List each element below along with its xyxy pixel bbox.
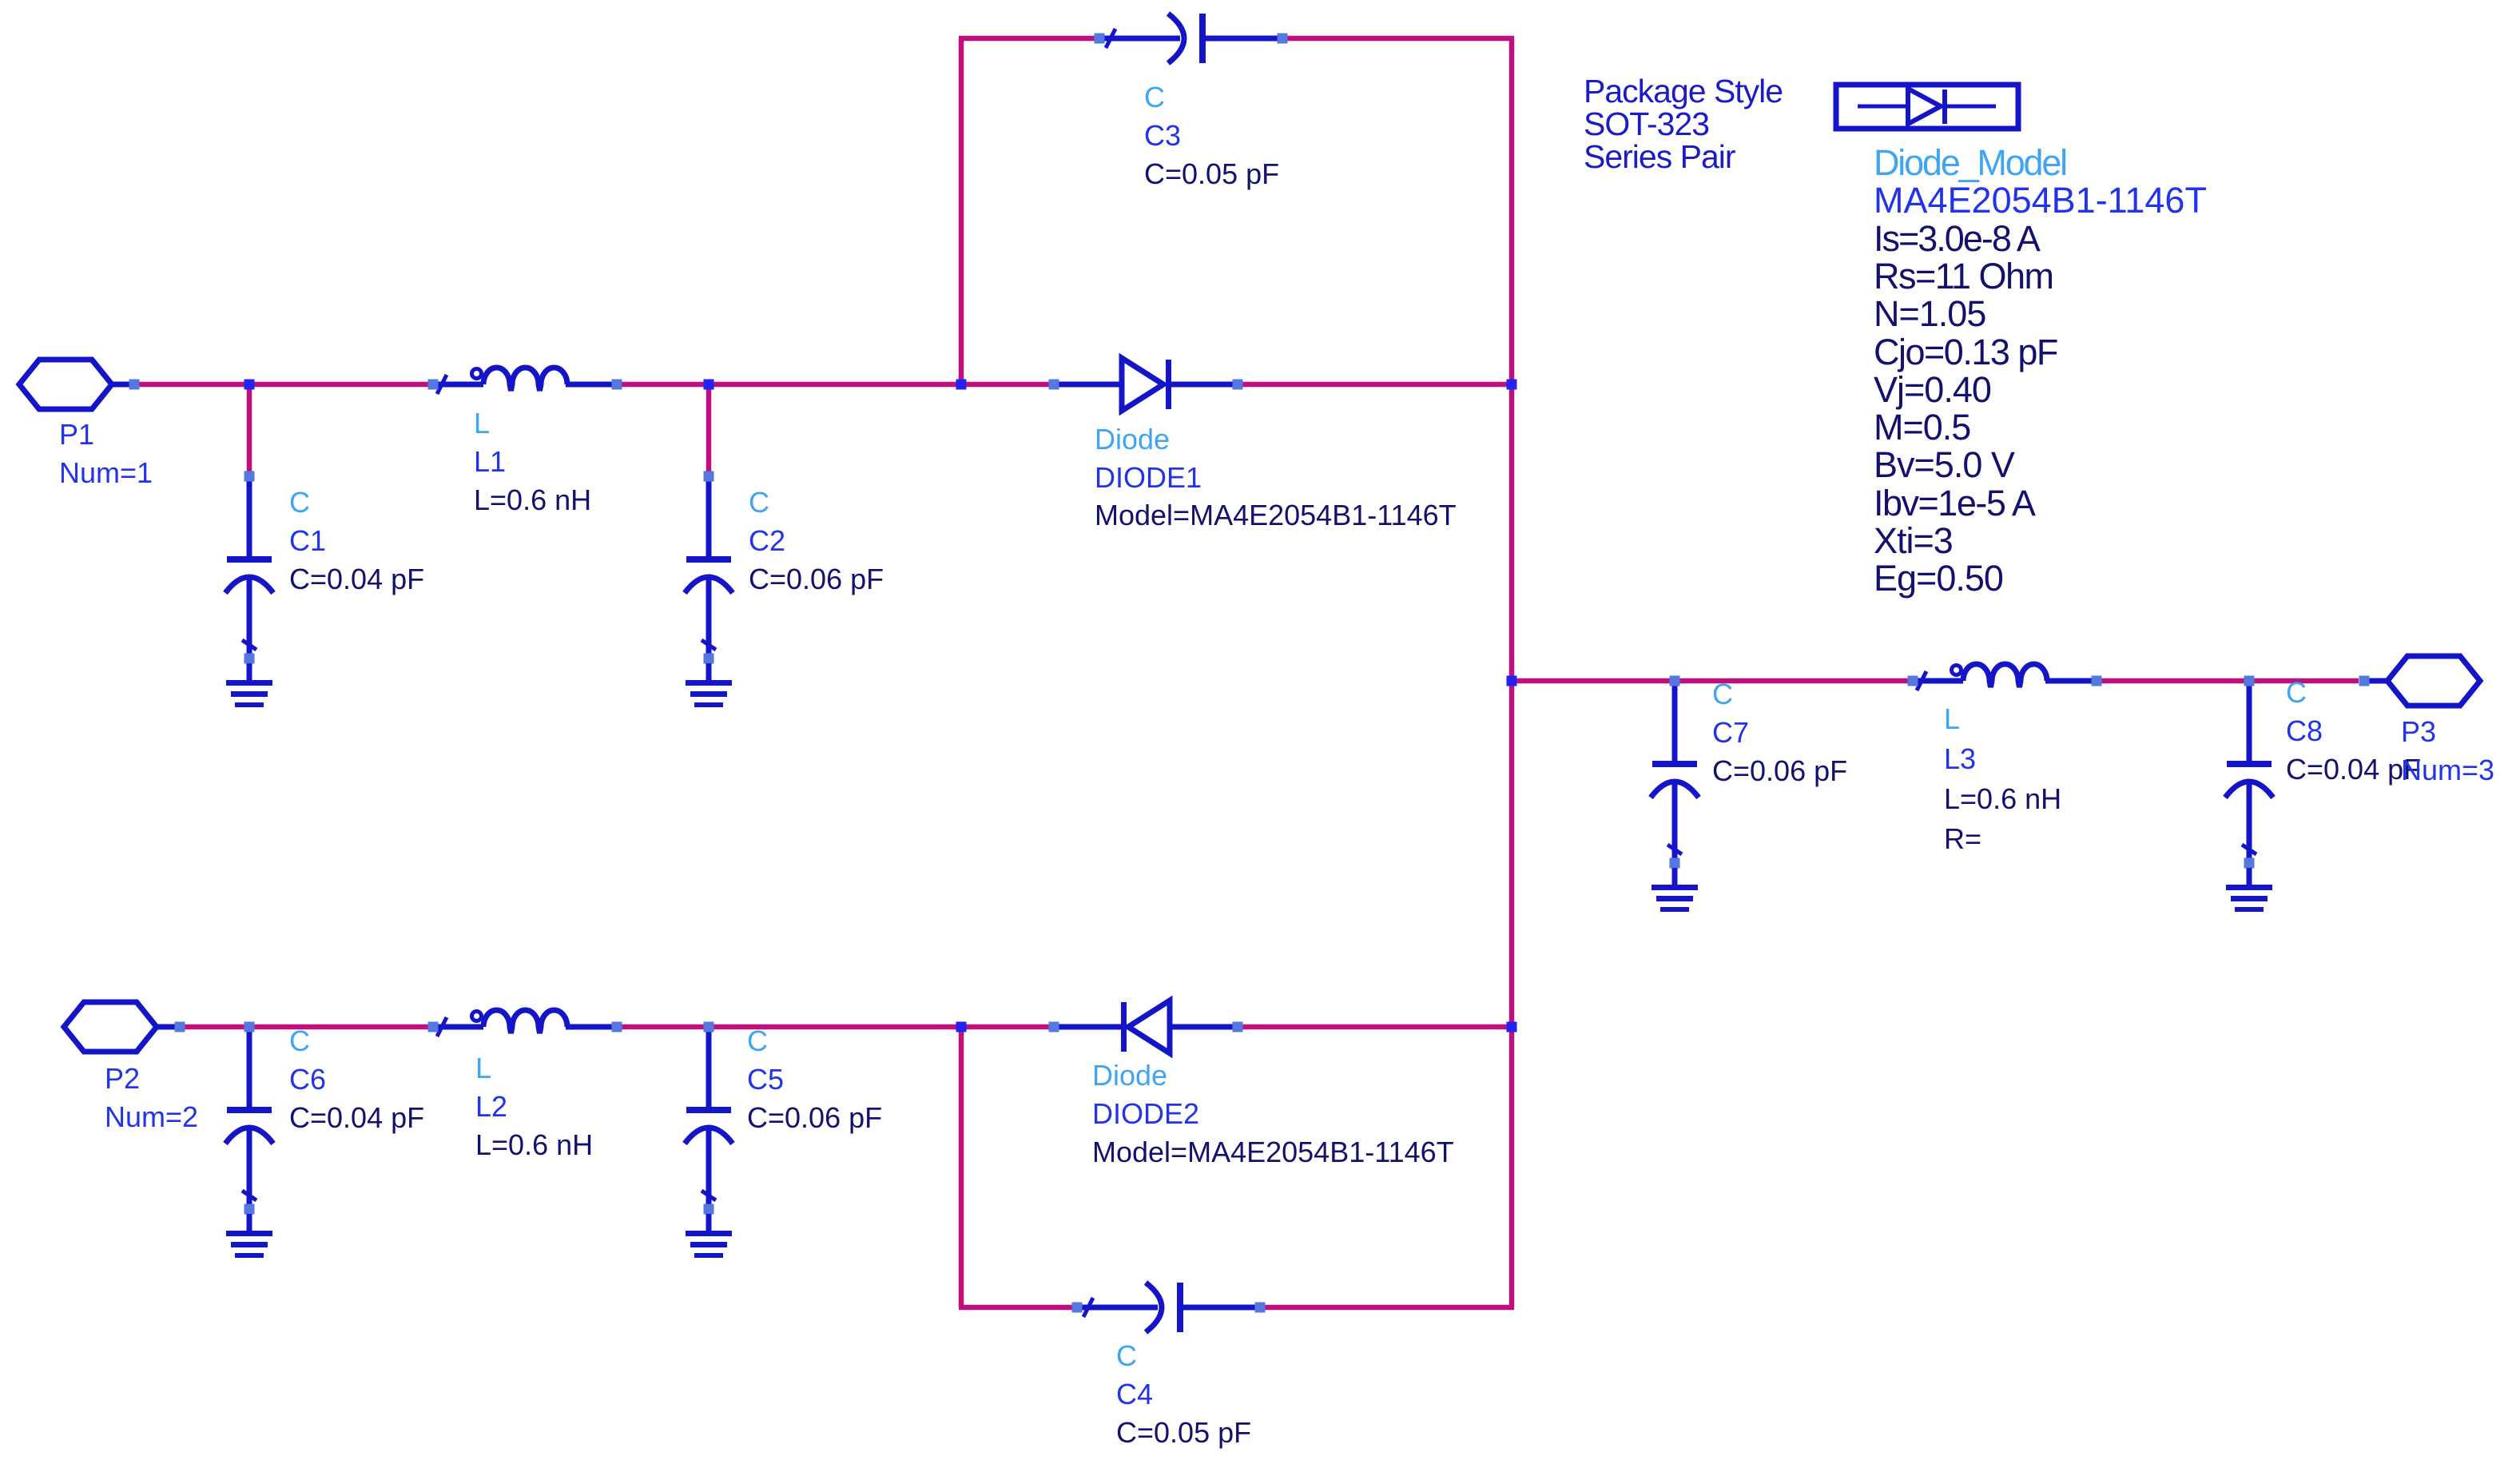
wire right vertical bus x=1892 — [1509, 38, 1515, 1307]
svg-text:DIODE1: DIODE1 — [1095, 461, 1202, 494]
pin 1 of C6 — [244, 1022, 255, 1032]
capacitor C5 — [706, 1027, 712, 1108]
capacitor C4 — [1077, 1305, 1158, 1311]
svg-text:C: C — [749, 486, 769, 519]
pin 1 of C4 — [1072, 1303, 1083, 1313]
port P3 — [2387, 656, 2480, 706]
svg-text:C8: C8 — [2286, 714, 2323, 747]
svg-text:L2: L2 — [475, 1090, 507, 1123]
pin of P1 — [129, 380, 140, 390]
junction node C1/wire — [244, 380, 255, 390]
svg-text:Model=MA4E2054B1-1146T: Model=MA4E2054B1-1146T — [1095, 499, 1457, 531]
wire P2 to L2 — [185, 1024, 433, 1030]
svg-text:L: L — [474, 407, 490, 440]
svg-text:L3: L3 — [1944, 742, 1976, 775]
wire L2 to DIODE2 cathode — [617, 1024, 1054, 1030]
svg-text:C=0.06 pF: C=0.06 pF — [747, 1101, 882, 1134]
svg-text:L: L — [1944, 702, 1960, 735]
pin 2 of C6 — [244, 1204, 255, 1215]
junction node output tap — [1507, 676, 1517, 686]
junction node bottom-loop tap — [956, 1022, 967, 1032]
pin 2 of C1 — [244, 654, 255, 664]
wire P1 to L1 (net top-left) — [139, 382, 433, 388]
svg-text:MA4E2054B1-1146T: MA4E2054B1-1146T — [1874, 180, 2207, 221]
lead C7 to ground — [1672, 868, 1678, 886]
ground of C7 — [1652, 885, 1698, 890]
pin 2 of C7 — [1670, 858, 1680, 869]
lead C1 to ground — [247, 663, 252, 682]
svg-text:C1: C1 — [289, 524, 326, 557]
ground of C2 — [686, 680, 732, 686]
svg-text:C5: C5 — [747, 1063, 784, 1096]
svg-text:Xti=3: Xti=3 — [1874, 520, 1953, 561]
diode model package symbol — [1836, 85, 2018, 129]
svg-text:C=0.04 pF: C=0.04 pF — [289, 1101, 424, 1134]
wire L1 to DIODE1 anode — [617, 382, 1054, 388]
svg-text:Package Style: Package Style — [1584, 73, 1783, 109]
pin 2 of C2 — [704, 654, 714, 664]
svg-text:Num=3: Num=3 — [2401, 754, 2494, 786]
inductor L1 — [433, 382, 483, 388]
junction node top-loop tap — [956, 380, 967, 390]
svg-text:C: C — [1712, 678, 1733, 710]
pin 2 of C5 — [704, 1204, 714, 1215]
svg-text:L=0.6 nH: L=0.6 nH — [1944, 782, 2061, 815]
svg-text:C: C — [747, 1024, 768, 1057]
svg-text:Eg=0.50: Eg=0.50 — [1874, 558, 2003, 599]
svg-text:Series Pair: Series Pair — [1584, 138, 1735, 175]
diode DIODE2 — [1054, 1024, 1121, 1030]
wire C1 stub — [247, 384, 252, 475]
svg-text:L=0.6 nH: L=0.6 nH — [474, 483, 591, 516]
pin 1 of DIODE1 — [1049, 380, 1059, 390]
pin of P3 — [2359, 676, 2370, 686]
svg-text:R=: R= — [1944, 822, 1981, 855]
wire C2 stub — [706, 384, 712, 475]
lead C8 to ground — [2247, 868, 2252, 886]
capacitor C3 — [1099, 36, 1180, 42]
pin 1 of C8 — [2244, 676, 2255, 686]
svg-text:Diode: Diode — [1095, 423, 1170, 456]
svg-text:L1: L1 — [474, 445, 506, 478]
svg-text:Cjo=0.13 pF: Cjo=0.13 pF — [1874, 332, 2057, 372]
pin 1 of C5 — [704, 1022, 714, 1032]
wire top-loop vertical left — [959, 38, 964, 384]
junction node diode1/bus — [1507, 380, 1517, 390]
capacitor C2 — [706, 476, 712, 558]
svg-text:C=0.06 pF: C=0.06 pF — [1712, 754, 1847, 787]
capacitor C6 — [247, 1027, 252, 1108]
capacitor C7 — [1672, 681, 1678, 762]
wire C3 to top-right corner — [1282, 36, 1514, 42]
svg-text:C: C — [2286, 676, 2307, 709]
svg-text:C7: C7 — [1712, 716, 1749, 749]
svg-text:P2: P2 — [105, 1062, 140, 1095]
wire bottom-loop horizontal to C4 — [959, 1305, 1077, 1311]
junction node C2/wire — [704, 380, 714, 390]
svg-text:Vj=0.40: Vj=0.40 — [1874, 369, 1991, 410]
svg-text:C: C — [1144, 81, 1165, 113]
pin 2 of L3 — [2092, 676, 2102, 686]
pin 2 of DIODE1 — [1233, 380, 1243, 390]
capacitor C8 — [2247, 681, 2252, 762]
pin 2 of L1 — [612, 380, 622, 390]
svg-text:C=0.05 pF: C=0.05 pF — [1116, 1416, 1251, 1449]
svg-text:Diode: Diode — [1092, 1059, 1167, 1092]
pin of P2 — [175, 1022, 185, 1032]
pin 2 of C3 — [1278, 34, 1288, 44]
svg-text:DIODE2: DIODE2 — [1092, 1097, 1199, 1130]
svg-text:C3: C3 — [1144, 119, 1181, 152]
junction node diode2/bus — [1507, 1022, 1517, 1032]
svg-text:SOT-323: SOT-323 — [1584, 105, 1709, 142]
svg-text:L=0.6 nH: L=0.6 nH — [475, 1128, 593, 1161]
svg-text:M=0.5: M=0.5 — [1874, 407, 1970, 448]
svg-text:N=1.05: N=1.05 — [1874, 293, 1985, 334]
wire C4 to bottom-right corner — [1260, 1305, 1514, 1311]
svg-text:P1: P1 — [59, 418, 94, 451]
lead C6 to ground — [247, 1214, 252, 1232]
pin 1 of C3 — [1095, 34, 1105, 44]
svg-text:Num=2: Num=2 — [105, 1100, 198, 1133]
inductor L3 — [1913, 678, 1963, 684]
pin 2 of L2 — [612, 1022, 622, 1032]
svg-text:Rs=11 Ohm: Rs=11 Ohm — [1874, 256, 2053, 296]
wire bottom-loop vertical left — [959, 1027, 964, 1307]
pin 1 of L3 — [1908, 676, 1918, 686]
svg-text:Model=MA4E2054B1-1146T: Model=MA4E2054B1-1146T — [1092, 1136, 1454, 1168]
port P2 — [64, 1002, 157, 1052]
pin 1 of C2 — [704, 471, 714, 482]
lead C5 to ground — [706, 1214, 712, 1232]
ground of C6 — [226, 1231, 272, 1236]
svg-text:C=0.05 pF: C=0.05 pF — [1144, 157, 1279, 190]
svg-text:C6: C6 — [289, 1063, 326, 1096]
pin 1 of C1 — [244, 471, 255, 482]
svg-text:C=0.04 pF: C=0.04 pF — [289, 563, 424, 595]
ground of C5 — [686, 1231, 732, 1236]
ground of C8 — [2226, 885, 2272, 890]
svg-text:Diode_Model: Diode_Model — [1874, 142, 2066, 183]
ground of C1 — [226, 680, 272, 686]
pin 2 of C8 — [2244, 858, 2255, 869]
lead C2 to ground — [706, 663, 712, 682]
pin 1 of L2 — [428, 1022, 439, 1032]
svg-text:Num=1: Num=1 — [59, 456, 153, 489]
diode DIODE1 — [1054, 382, 1122, 388]
inductor L2 — [433, 1024, 483, 1030]
svg-text:Is=3.0e-8 A: Is=3.0e-8 A — [1874, 218, 2041, 259]
svg-text:C2: C2 — [749, 524, 785, 557]
svg-text:C: C — [1116, 1339, 1137, 1372]
wire top-loop horizontal left to C3 — [959, 36, 1099, 42]
capacitor C1 — [247, 476, 252, 558]
pin 2 of C4 — [1255, 1303, 1266, 1313]
pin 2 of DIODE2 — [1233, 1022, 1243, 1032]
pin 1 of C7 — [1670, 676, 1680, 686]
svg-text:P3: P3 — [2401, 715, 2436, 748]
wire DIODE2 anode to node x=1892 — [1238, 1024, 1512, 1030]
svg-text:L: L — [475, 1052, 491, 1084]
wire L3 to P3 — [2097, 678, 2359, 684]
svg-text:C: C — [289, 1024, 310, 1057]
svg-text:Bv=5.0 V: Bv=5.0 V — [1874, 444, 2015, 485]
wire output node to L3 — [1512, 678, 1913, 684]
svg-text:C: C — [289, 486, 310, 519]
pin 1 of L1 — [428, 380, 439, 390]
svg-text:C=0.06 pF: C=0.06 pF — [749, 563, 884, 595]
wire DIODE1 cathode to node at x=1892 — [1238, 382, 1512, 388]
pin 1 of DIODE2 — [1049, 1022, 1059, 1032]
svg-text:Ibv=1e-5 A: Ibv=1e-5 A — [1874, 483, 2036, 523]
port P1 — [19, 360, 112, 409]
svg-text:C4: C4 — [1116, 1378, 1153, 1410]
